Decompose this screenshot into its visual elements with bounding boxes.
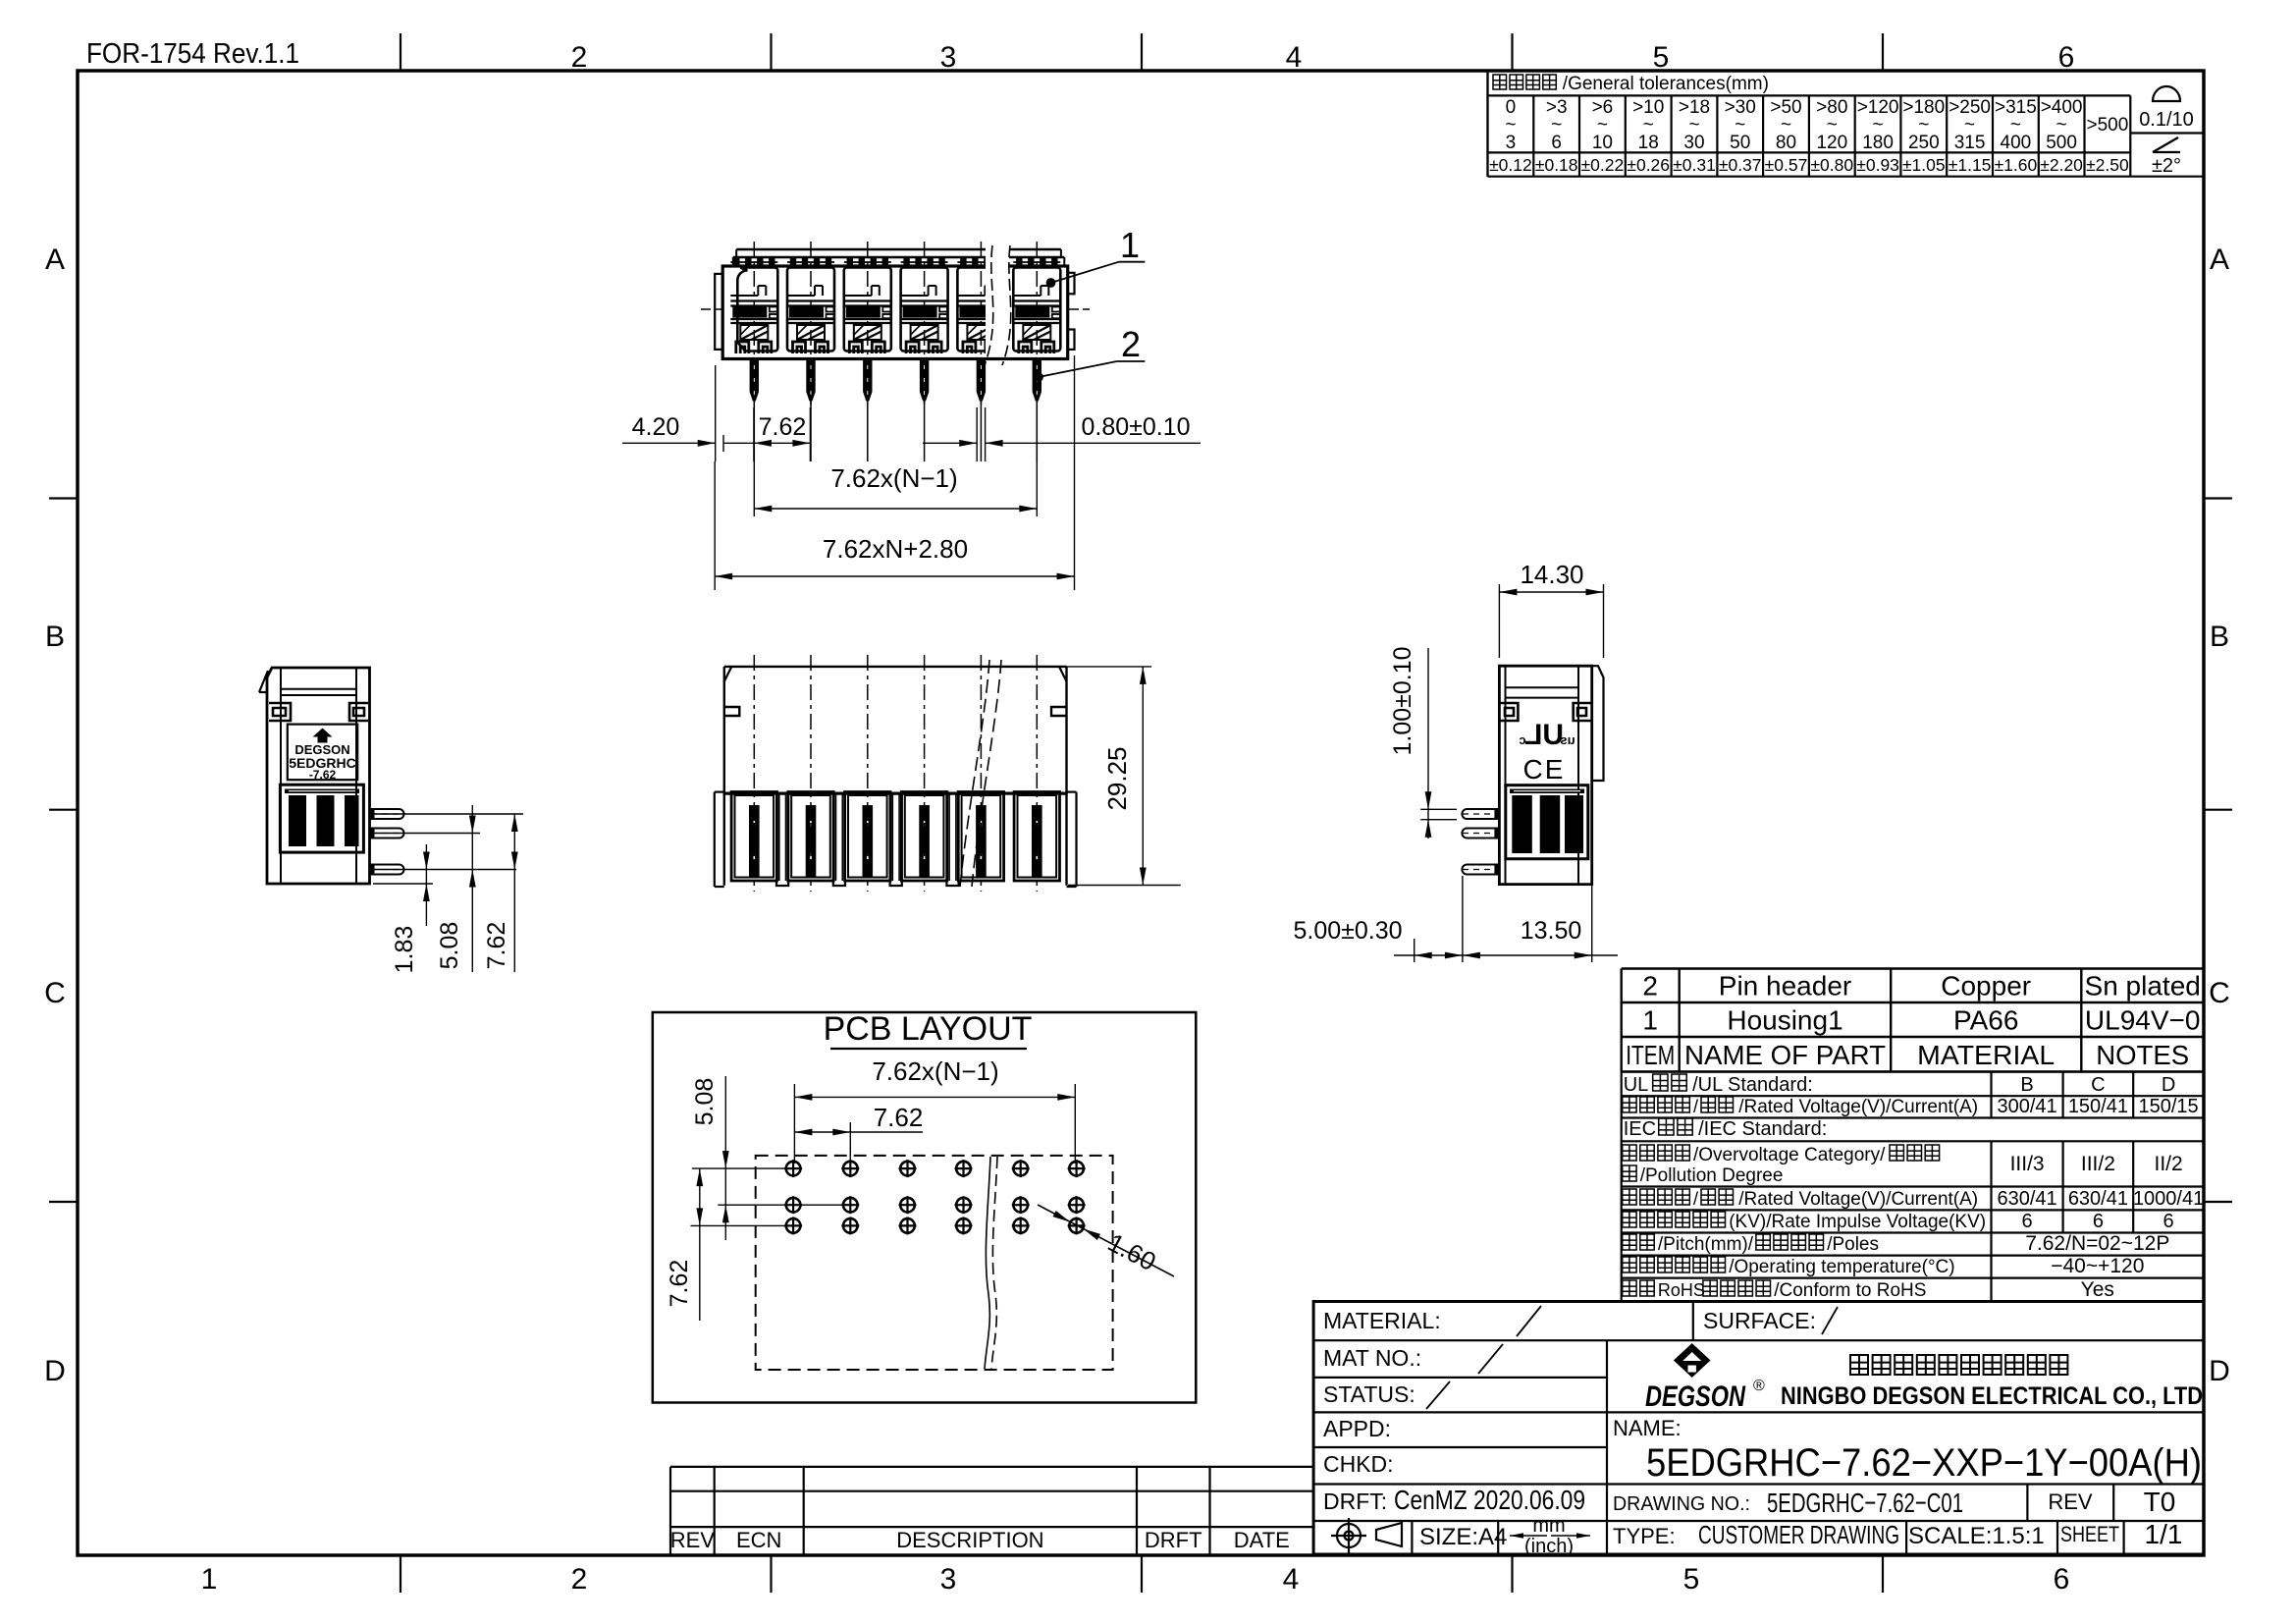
svg-text:5: 5	[1683, 1563, 1700, 1596]
right side view: mirrored cULus mark	[1519, 719, 1575, 751]
right side view: pins pointing left	[1462, 809, 1499, 819]
svg-text:2: 2	[1121, 324, 1141, 364]
first angle projection symbol	[1331, 1518, 1366, 1553]
svg-text:REV: REV	[2048, 1489, 2093, 1514]
angle tolerance cell	[2153, 151, 2180, 153]
svg-text:7.62x(N−1): 7.62x(N−1)	[872, 1056, 998, 1086]
svg-text:/Rated Voltage(V)/Current(A): /Rated Voltage(V)/Current(A)	[1738, 1189, 1978, 1210]
svg-text:1: 1	[201, 1563, 218, 1596]
svg-text:SCALE:1.5:1: SCALE:1.5:1	[1908, 1523, 2045, 1549]
svg-text:NAME OF PART: NAME OF PART	[1684, 1040, 1886, 1070]
dimension 7.62x(N-1)	[753, 461, 755, 516]
svg-text:3: 3	[940, 41, 957, 74]
spec row impulse voltage	[1623, 1212, 1726, 1227]
front view: terminal cell at x=999	[957, 242, 1004, 405]
svg-text:/Pitch(mm)/: /Pitch(mm)/	[1658, 1234, 1754, 1255]
pcb dimension 1.60 leader	[1038, 1205, 1174, 1276]
pcb break lines	[985, 1157, 990, 1369]
left view dimension lines to pins	[373, 813, 523, 815]
svg-text:±0.18: ±0.18	[1535, 155, 1578, 175]
svg-text:RoHS: RoHS	[1658, 1280, 1705, 1300]
svg-text:±1.60: ±1.60	[1995, 155, 2038, 175]
svg-text:T0: T0	[2144, 1487, 2176, 1517]
revision history table	[670, 1466, 1313, 1468]
svg-text:±0.26: ±0.26	[1627, 155, 1670, 175]
right side view: top grooves	[1506, 686, 1579, 688]
svg-text:5EDGRHC−7.62−C01: 5EDGRHC−7.62−C01	[1767, 1488, 1963, 1518]
row ticks right	[2204, 497, 2232, 499]
svg-text:6: 6	[2163, 1211, 2174, 1232]
svg-text:mm: mm	[1532, 1515, 1565, 1537]
svg-text:REV: REV	[670, 1528, 716, 1552]
svg-text:C: C	[2091, 1074, 2105, 1096]
dimension 5.00±0.30 and 13.50	[1414, 939, 1415, 962]
svg-text:CUSTOMER DRAWING: CUSTOMER DRAWING	[1698, 1520, 1899, 1549]
svg-text:10: 10	[1592, 133, 1613, 153]
svg-text:/Pollution Degree: /Pollution Degree	[1640, 1165, 1784, 1186]
svg-text:6: 6	[1551, 133, 1562, 153]
svg-text:2: 2	[571, 1563, 588, 1596]
svg-text:150/15: 150/15	[2139, 1096, 2199, 1117]
column ticks bottom	[400, 1555, 401, 1593]
front view: terminal cell at x=884	[844, 242, 891, 405]
svg-text:±0.57: ±0.57	[1765, 155, 1808, 175]
svg-text:MATERIAL:: MATERIAL:	[1323, 1308, 1441, 1333]
front view: left end cap	[715, 274, 722, 350]
left side view: side latch tabs	[269, 703, 291, 721]
svg-text:STATUS:: STATUS:	[1323, 1381, 1415, 1407]
svg-text:CenMZ 2020.06.09: CenMZ 2020.06.09	[1394, 1485, 1585, 1515]
bottom view: tooth at x=942	[901, 655, 946, 892]
svg-text:1: 1	[1120, 225, 1140, 265]
svg-text:UL94V−0: UL94V−0	[2085, 1005, 2201, 1036]
svg-text:±1.15: ±1.15	[1949, 155, 1992, 175]
svg-text:(KV)/Rate Impulse Voltage(KV: (KV)/Rate Impulse Voltage(KV)	[1729, 1212, 1986, 1232]
svg-text:D: D	[2209, 1355, 2230, 1387]
svg-text:180: 180	[1862, 133, 1894, 153]
svg-text:DESCRIPTION: DESCRIPTION	[896, 1528, 1043, 1552]
svg-text:/: /	[1693, 1097, 1698, 1116]
svg-text:4: 4	[1286, 41, 1303, 74]
projection cone symbol	[1376, 1523, 1402, 1546]
right side view: housing outline	[1499, 666, 1591, 884]
svg-text:Housing1: Housing1	[1727, 1005, 1842, 1036]
svg-text:/Conform to RoHS: /Conform to RoHS	[1774, 1280, 1926, 1301]
svg-text:630/41: 630/41	[2068, 1188, 2128, 1210]
svg-text:FOR-1754 Rev.1.1: FOR-1754 Rev.1.1	[86, 38, 299, 70]
svg-text:MATERIAL: MATERIAL	[1917, 1040, 2055, 1070]
dimension 5.08	[471, 805, 473, 972]
svg-text:/Rated Voltage(V)/Current(A): /Rated Voltage(V)/Current(A)	[1738, 1097, 1978, 1117]
spec row overvoltage category	[1623, 1145, 1690, 1161]
svg-text:/UL Standard:: /UL Standard:	[1692, 1074, 1813, 1096]
pcb holes grid	[784, 1160, 802, 1177]
bottom view: tooth at x=1056	[1014, 655, 1059, 892]
bottom row dividers	[1411, 1521, 1413, 1554]
svg-text:2: 2	[1642, 971, 1658, 1001]
svg-text:80: 80	[1776, 133, 1796, 153]
svg-text:III/3: III/3	[2010, 1153, 2045, 1175]
svg-text:Yes: Yes	[2081, 1278, 2114, 1301]
svg-text:DRFT:: DRFT:	[1323, 1489, 1387, 1514]
pcb dimension 5.08	[724, 1076, 726, 1240]
svg-text:4: 4	[1283, 1563, 1300, 1596]
dimension 1.00±0.10	[1420, 808, 1457, 810]
right side view: side latch tabs	[1500, 703, 1518, 721]
svg-text:5: 5	[1653, 41, 1670, 74]
svg-text:PCB LAYOUT: PCB LAYOUT	[824, 1010, 1033, 1048]
svg-text:6: 6	[2022, 1211, 2033, 1232]
svg-text:±0.80: ±0.80	[1810, 155, 1853, 175]
svg-text:±0.12: ±0.12	[1489, 155, 1532, 175]
pcb row reference lines	[692, 1167, 786, 1169]
pcb dashed connector outline	[756, 1156, 1113, 1370]
svg-text:SHEET: SHEET	[2060, 1522, 2119, 1546]
svg-text:NINGBO DEGSON ELECTRICAL CO.,: NINGBO DEGSON ELECTRICAL CO., LTD	[1781, 1382, 2203, 1410]
spec row rated voltage IEC	[1623, 1189, 1690, 1205]
bottom view: comb top band	[723, 792, 1068, 795]
svg-text:315: 315	[1954, 133, 1986, 153]
bottom view: tooth at x=999	[958, 655, 1003, 892]
tolerance table title	[1493, 75, 1556, 89]
dimension 7.62 (pitch)	[753, 407, 755, 461]
svg-text:3: 3	[1506, 133, 1517, 153]
svg-text:DEGSON: DEGSON	[1645, 1380, 1746, 1413]
svg-text:III/2: III/2	[2081, 1153, 2115, 1175]
svg-text:1000/41: 1000/41	[2133, 1188, 2204, 1210]
svg-text:4.20: 4.20	[632, 413, 680, 441]
svg-text:/Poles: /Poles	[1827, 1234, 1879, 1255]
svg-text:D: D	[44, 1355, 66, 1387]
left side view: degson logo mark	[313, 729, 333, 743]
svg-text:300/41: 300/41	[1998, 1096, 2057, 1117]
dimension 29.25	[1067, 666, 1152, 668]
svg-text:D: D	[2162, 1074, 2175, 1096]
svg-text:CE: CE	[1523, 754, 1566, 785]
svg-text:UL: UL	[1524, 719, 1564, 751]
bottom view: latch hooks	[724, 707, 740, 716]
dimension 7.62 vertical	[513, 814, 515, 972]
bottom view: body outline	[724, 666, 1067, 668]
svg-text:B: B	[2210, 621, 2229, 653]
svg-text:/IEC Standard:: /IEC Standard:	[1698, 1118, 1827, 1140]
svg-text:c: c	[1519, 732, 1525, 747]
svg-text:7.62: 7.62	[759, 413, 807, 441]
item balloon 2 with leader	[1034, 372, 1043, 382]
svg-text:NAME:: NAME:	[1613, 1416, 1682, 1440]
svg-text:13.50: 13.50	[1521, 917, 1582, 945]
spec row rated voltage UL	[1623, 1097, 1690, 1112]
parts list table	[1622, 967, 2204, 969]
svg-text:IEC: IEC	[1624, 1118, 1656, 1140]
degson logo diamond	[1674, 1343, 1711, 1378]
dimension 7.62xN+2.80	[714, 461, 716, 590]
front view: terminal cell at x=826	[787, 242, 834, 405]
svg-text:TYPE:: TYPE:	[1613, 1524, 1676, 1548]
svg-text:UL: UL	[1624, 1074, 1649, 1096]
right side view: top-right flag	[1592, 666, 1604, 781]
item balloon 1 with leader	[1046, 278, 1056, 288]
svg-text:Pin header: Pin header	[1719, 971, 1851, 1001]
svg-text:29.25: 29.25	[1102, 746, 1132, 810]
svg-text:150/41: 150/41	[2068, 1096, 2128, 1117]
svg-text:1: 1	[1642, 1005, 1658, 1036]
spec row RoHS	[1623, 1280, 1655, 1296]
svg-text:1/1: 1/1	[2145, 1519, 2183, 1549]
svg-text:±2.50: ±2.50	[2086, 155, 2129, 175]
svg-text:APPD:: APPD:	[1323, 1416, 1391, 1441]
svg-text:6: 6	[2054, 1563, 2070, 1596]
company chinese name	[1850, 1355, 2067, 1375]
svg-text:®: ®	[1753, 1378, 1765, 1394]
svg-text:250: 250	[1908, 133, 1940, 153]
svg-text:120: 120	[1816, 133, 1847, 153]
svg-text:DATE: DATE	[1234, 1528, 1290, 1552]
left side view: pins	[370, 809, 404, 819]
svg-text:±0.31: ±0.31	[1673, 155, 1716, 175]
svg-text:7.62x(N−1): 7.62x(N−1)	[830, 463, 957, 493]
svg-text:Sn plated: Sn plated	[2085, 971, 2201, 1001]
svg-text:/General tolerances(mm): /General tolerances(mm)	[1563, 74, 1769, 94]
svg-text:SURFACE:: SURFACE:	[1703, 1308, 1816, 1333]
svg-text:18: 18	[1638, 133, 1659, 153]
bottom view: break lines	[960, 660, 989, 887]
left side view: contact block	[280, 785, 363, 852]
front view: horizontal centerline stubs	[701, 308, 721, 310]
svg-text:C: C	[44, 977, 66, 1009]
svg-text:±1.05: ±1.05	[1902, 155, 1946, 175]
front view: terminal cell at x=1056	[1013, 242, 1060, 405]
svg-text:PA66: PA66	[1953, 1005, 2018, 1036]
bottom view: tooth at x=884	[845, 655, 890, 892]
flatness symbol cell	[2130, 132, 2204, 134]
svg-text:50: 50	[1730, 133, 1750, 153]
dimension 0.80±0.10	[976, 407, 978, 461]
svg-text:>500: >500	[2087, 115, 2129, 135]
svg-text:3: 3	[940, 1563, 957, 1596]
bottom view: tooth at x=768	[731, 655, 776, 892]
svg-text:5EDGRHC−7.62−XXP−1Y−00A(H): 5EDGRHC−7.62−XXP−1Y−00A(H)	[1646, 1441, 2202, 1485]
bottom view: slots between teeth	[775, 792, 777, 882]
svg-text:5.08: 5.08	[436, 922, 463, 970]
bottom view: side rails	[714, 792, 716, 887]
svg-text:6: 6	[2058, 41, 2075, 74]
specification table	[1622, 1070, 2204, 1072]
svg-text:30: 30	[1683, 133, 1704, 153]
svg-text:DRFT: DRFT	[1145, 1528, 1202, 1552]
svg-text:/: /	[1693, 1189, 1698, 1209]
svg-text:A: A	[45, 244, 65, 276]
svg-text:C: C	[2209, 977, 2230, 1009]
svg-text:6: 6	[2093, 1211, 2104, 1232]
right side view: contact block	[1506, 785, 1588, 859]
svg-text:DRAWING NO.:: DRAWING NO.:	[1613, 1493, 1750, 1515]
svg-text:/Overvoltage Category/: /Overvoltage Category/	[1693, 1145, 1886, 1165]
front view: break lines	[986, 245, 1009, 357]
svg-text:ITEM: ITEM	[1626, 1040, 1675, 1070]
svg-text:2: 2	[571, 41, 588, 74]
svg-text:±0.37: ±0.37	[1719, 155, 1762, 175]
svg-text:-7.62: -7.62	[309, 768, 337, 782]
spec row operating temperature	[1623, 1257, 1726, 1272]
general tolerances table	[1486, 71, 1488, 177]
svg-text:0.1/10: 0.1/10	[2139, 109, 2194, 131]
dimension 4.20	[715, 365, 717, 461]
svg-text:7.62/N=02~12P: 7.62/N=02~12P	[2025, 1232, 2169, 1255]
dimension 14.30	[1498, 584, 1500, 658]
front view: pin header pins	[750, 360, 759, 402]
svg-text:NOTES: NOTES	[2096, 1040, 2189, 1070]
svg-text:B: B	[2020, 1074, 2033, 1096]
svg-text:A: A	[2210, 244, 2229, 276]
svg-text:630/41: 630/41	[1998, 1188, 2057, 1210]
svg-text:5.00±0.30: 5.00±0.30	[1293, 917, 1402, 945]
pcb dimension 7.62x(N-1)	[793, 1084, 795, 1164]
svg-text:7.62: 7.62	[666, 1260, 693, 1308]
svg-text:−40~+120: −40~+120	[2051, 1255, 2144, 1277]
svg-text:7.62xN+2.80: 7.62xN+2.80	[823, 534, 968, 564]
pcb dimension 7.62 vertical	[699, 1168, 701, 1321]
svg-text:±2°: ±2°	[2152, 155, 2181, 177]
svg-text:500: 500	[2046, 133, 2077, 153]
svg-text:±0.93: ±0.93	[1856, 155, 1899, 175]
svg-text:(inch): (inch)	[1524, 1536, 1574, 1557]
column ticks top	[400, 33, 401, 71]
svg-text:CHKD:: CHKD:	[1323, 1451, 1394, 1477]
svg-text:7.62: 7.62	[874, 1103, 924, 1132]
front view: terminal cell at x=942	[901, 242, 948, 405]
drawing number row	[2026, 1485, 2028, 1522]
title block outline	[1313, 1302, 2204, 1555]
dimension 1.83	[425, 844, 427, 926]
left side view: product label box	[288, 725, 357, 781]
front view: right end tabs	[1068, 273, 1075, 295]
svg-text:7.62: 7.62	[483, 922, 510, 970]
svg-text:ECN: ECN	[736, 1528, 781, 1552]
left side view: housing outline	[267, 668, 370, 884]
pcb dimension 7.62	[849, 1122, 851, 1164]
pcb layout box	[653, 1012, 1197, 1403]
svg-text:us: us	[1560, 732, 1575, 747]
spec row pitch/poles	[1623, 1234, 1655, 1250]
materials row divider	[1692, 1302, 1694, 1341]
svg-text:MAT NO.:: MAT NO.:	[1323, 1345, 1421, 1371]
front view: housing body outline	[736, 248, 1061, 250]
svg-text:B: B	[45, 621, 65, 653]
svg-text:/Operating temperature(°C): /Operating temperature(°C)	[1729, 1257, 1954, 1277]
row ticks left	[49, 497, 78, 499]
svg-text:SIZE:A4: SIZE:A4	[1419, 1524, 1507, 1550]
svg-text:II/2: II/2	[2155, 1153, 2183, 1175]
svg-text:±0.22: ±0.22	[1581, 155, 1625, 175]
svg-text:5.08: 5.08	[691, 1078, 719, 1126]
svg-text:1.00±0.10: 1.00±0.10	[1389, 646, 1416, 755]
svg-text:0.80±0.10: 0.80±0.10	[1081, 413, 1190, 441]
left side view: top grooves	[281, 688, 356, 690]
front view: terminal cell at x=768	[730, 242, 777, 405]
svg-text:14.30: 14.30	[1520, 560, 1583, 589]
svg-text:400: 400	[2001, 133, 2032, 153]
bottom view: tooth at x=826	[788, 655, 833, 892]
svg-text:1.83: 1.83	[391, 926, 418, 974]
svg-text:Copper: Copper	[1941, 971, 2031, 1001]
svg-text:±2.20: ±2.20	[2040, 155, 2083, 175]
